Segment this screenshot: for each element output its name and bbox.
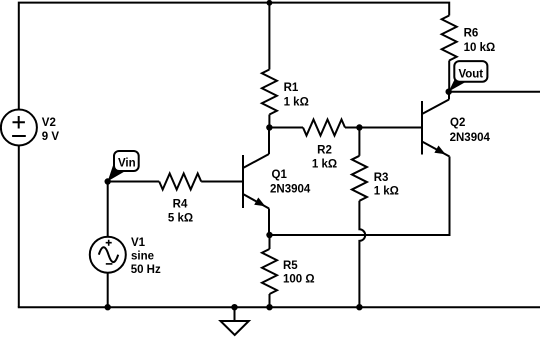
svg-text:V2: V2	[42, 117, 56, 129]
svg-text:2N3904: 2N3904	[450, 132, 491, 144]
wire R2 to Q2 base	[345, 127, 422, 129]
junction V1 / bottom rail	[105, 304, 111, 310]
resistor R5	[262, 249, 277, 294]
label R6 value	[464, 28, 496, 55]
svg-text:R1: R1	[284, 82, 299, 94]
wire R5 bottom to rail	[269, 294, 271, 307]
voltage source V2	[1, 110, 37, 146]
junction Q1 emitter / R5	[266, 232, 272, 238]
resistor R4	[159, 174, 201, 190]
wire Vin node to V1 top	[107, 182, 109, 237]
label R2 value	[312, 145, 337, 171]
voltage source V1 (sine)	[90, 237, 126, 273]
wire Vin node to R4	[108, 181, 160, 183]
label Vout text	[458, 68, 483, 80]
svg-text:Vout: Vout	[458, 68, 483, 80]
wire bottom rail	[19, 306, 540, 307]
svg-text:1 kΩ: 1 kΩ	[284, 97, 309, 109]
svg-text:9 V: 9 V	[42, 131, 60, 143]
junction R5 / bottom rail	[266, 304, 272, 310]
svg-text:1 kΩ: 1 kΩ	[374, 186, 399, 198]
svg-text:50 Hz: 50 Hz	[131, 264, 161, 276]
resistor R3	[352, 156, 367, 201]
svg-text:V1: V1	[131, 237, 146, 249]
junction R3 / bottom rail	[356, 304, 362, 310]
svg-text:Q2: Q2	[450, 117, 465, 129]
svg-text:R3: R3	[374, 172, 389, 184]
wire emitter rail Q1 to Q2	[269, 157, 450, 236]
wire R1 to collector node	[268, 115, 270, 128]
wire R6 to Vout node	[448, 61, 450, 92]
wire collector node to R2	[269, 127, 303, 129]
svg-text:sine: sine	[131, 250, 154, 262]
svg-text:2N3904: 2N3904	[270, 184, 311, 196]
label V1 value	[131, 237, 161, 276]
wire Q1 collector up to node	[268, 128, 270, 155]
wire R3 top	[358, 128, 360, 156]
label R3 value	[374, 172, 399, 198]
label R5 value	[283, 260, 315, 286]
resistor R6	[442, 16, 457, 61]
label Q1 value	[270, 169, 311, 196]
svg-text:R5: R5	[283, 260, 298, 272]
label V2 value	[42, 117, 60, 143]
ground	[221, 307, 249, 335]
wire V1 bottom to bottom rail	[107, 273, 109, 308]
wire top rail to R1	[268, 3, 270, 70]
svg-text:R6: R6	[464, 28, 479, 40]
junction R1 / R2 / Q1 collector	[266, 124, 272, 130]
svg-text:10 kΩ: 10 kΩ	[464, 42, 496, 54]
wire R4 to Q1 base	[201, 181, 243, 183]
label R1 value	[284, 82, 309, 109]
svg-text:5 kΩ: 5 kΩ	[168, 213, 193, 225]
wire R5 top	[269, 235, 271, 249]
svg-text:Q1: Q1	[272, 169, 288, 181]
label R4 value	[168, 199, 193, 225]
svg-text:R4: R4	[173, 199, 188, 211]
resistor R2	[303, 120, 345, 136]
svg-text:100 Ω: 100 Ω	[283, 274, 315, 286]
wire left rail bottom (V2 to bottom rail)	[18, 146, 20, 308]
junction ground / bottom rail	[231, 304, 237, 310]
wire top rail	[19, 3, 449, 110]
wire Q2 collector to Vout node	[448, 92, 450, 100]
junction node Vout	[446, 89, 452, 95]
wire R3 bottom with hop over emitter wire	[359, 201, 365, 307]
transistor Q2	[422, 100, 450, 157]
junction R2 / R3 / Q2 base	[356, 124, 362, 130]
label Q2 value	[450, 117, 491, 144]
svg-text:1 kΩ: 1 kΩ	[312, 159, 337, 171]
wire Q1 emitter down to node	[268, 209, 270, 236]
transistor Q1	[243, 154, 269, 209]
resistor R1	[262, 70, 277, 115]
wire Vout node to right edge	[449, 91, 540, 93]
svg-text:Vin: Vin	[118, 157, 136, 169]
svg-text:R2: R2	[317, 145, 332, 157]
node flag Vout	[449, 61, 488, 91]
junction top rail / R1	[267, 0, 273, 6]
node flag Vin	[108, 151, 139, 181]
label Vin text	[118, 157, 136, 169]
junction node Vin	[105, 178, 111, 184]
